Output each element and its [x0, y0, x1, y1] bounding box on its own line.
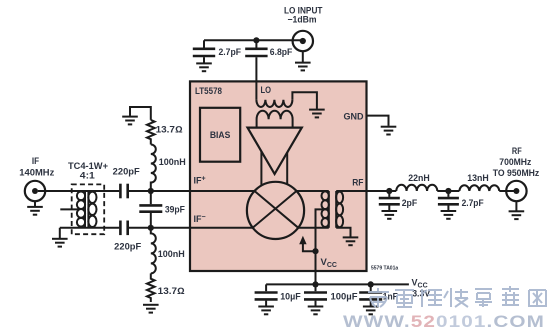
pin GND wire — [367, 116, 389, 126]
capacitor C2 6.8pF (LO series) — [255, 40, 257, 47]
resistor R1 13.7ohm (top) — [147, 120, 155, 145]
T1 tap stub — [60, 208, 79, 210]
node 1nF junction — [368, 281, 374, 287]
wire T1 primary bottom to ground — [59, 228, 61, 238]
ground of T3 secondary — [343, 237, 359, 245]
node Vcc rail junction — [312, 281, 318, 287]
ground under LO connector — [295, 63, 311, 71]
capacitor C4 220pF (IF- series) — [119, 221, 122, 236]
svg-text:2.7pF: 2.7pF — [219, 47, 242, 57]
svg-text:2pF: 2pF — [402, 198, 418, 208]
resistor R2 13.7ohm (bottom) — [147, 273, 155, 302]
svg-text:39pF: 39pF — [165, 204, 185, 214]
svg-text:220pF: 220pF — [113, 167, 141, 177]
capacitor C7 2.7pF — [447, 191, 449, 197]
wire Vcc rail — [266, 283, 409, 285]
ground under C1 — [196, 63, 212, 71]
T1 secondary winding — [88, 191, 96, 228]
wire IF- inside chip — [190, 227, 253, 229]
wire RF pin — [336, 190, 396, 192]
svg-text:13.7Ω: 13.7Ω — [156, 124, 183, 134]
wire LO top rail — [204, 39, 302, 41]
inductor L4 13nH — [459, 185, 499, 191]
node IF+ junction — [148, 188, 154, 194]
svg-text:RF: RF — [352, 177, 364, 187]
svg-text:WWW.520101.COM: WWW.520101.COM — [343, 313, 545, 331]
capacitor C9 100uF — [315, 284, 317, 291]
transformer T3 secondary — [336, 191, 343, 228]
ground under C9 — [308, 307, 324, 315]
ground under J1 — [27, 207, 43, 215]
capacitor C5 39pF (IF shunt) — [150, 191, 152, 204]
ground under C6 — [382, 211, 398, 219]
T3 center tap to Vcc — [316, 209, 329, 284]
svg-text:140MHz: 140MHz — [19, 167, 55, 177]
wire IF- rail (left of 220pF) — [60, 227, 120, 229]
svg-text:IF: IF — [32, 156, 40, 166]
transformer T2 LO balun primary — [256, 100, 292, 107]
transformer T1 TC4-1W+ dashed box — [72, 184, 105, 234]
svg-text:10µF: 10µF — [280, 292, 301, 302]
BIAS block — [200, 108, 240, 162]
wire LO pin into chip — [255, 57, 257, 100]
svg-text:4:1: 4:1 — [80, 171, 95, 181]
node RF junction 1 — [386, 188, 392, 194]
inductor L1 100nH (IF+) — [151, 145, 156, 192]
ground under J3 — [509, 211, 525, 219]
svg-text:700MHz: 700MHz — [499, 157, 531, 167]
inductor L2 100nH (IF-) — [151, 228, 156, 274]
connector J1 IF input — [25, 181, 45, 201]
T1 primary winding — [77, 191, 85, 228]
svg-text:100nH: 100nH — [159, 157, 186, 167]
svg-text:BIAS: BIAS — [210, 130, 231, 141]
node RF junction 2 — [445, 188, 451, 194]
ground of T2 primary — [309, 110, 325, 118]
ground of T1 — [52, 239, 68, 247]
svg-text:LT5578: LT5578 — [195, 86, 222, 97]
wire IF+ rail (left of 220pF) — [38, 190, 119, 192]
ground above R1 — [122, 117, 138, 125]
connector J2 LO INPUT — [293, 31, 313, 51]
transformer T3 RF primary (center-tapped) — [322, 191, 329, 228]
svg-text:2.7pF: 2.7pF — [462, 198, 484, 208]
capacitor C3 220pF (IF+ series) — [119, 184, 122, 199]
wire T3 secondary bottom to ground — [336, 228, 350, 237]
ground under C8 — [258, 307, 274, 315]
capacitor C6 2pF — [388, 191, 390, 197]
svg-text:13.7Ω: 13.7Ω — [158, 286, 185, 296]
ground under C10 — [363, 307, 379, 315]
watermark — [368, 286, 546, 307]
svg-text:LO: LO — [261, 85, 272, 95]
Vcc arrow — [303, 243, 316, 251]
wire amp to mixer left — [260, 151, 262, 186]
wire mixer to RF transformer top — [297, 190, 329, 192]
wire between L3 and L4 — [437, 190, 459, 192]
Vcc node inside chip — [312, 248, 318, 254]
wire R1 to ground — [130, 107, 151, 120]
svg-text:100nH: 100nH — [158, 249, 185, 259]
IC U1 LT5578 body — [190, 81, 367, 271]
wire amp to mixer right — [286, 152, 288, 185]
wire mixer to RF transformer bottom — [297, 227, 329, 229]
capacitor C1 2.7pF (LO shunt) — [203, 40, 205, 47]
capacitor C10 1nF — [370, 284, 372, 291]
wire IF+ inside chip — [190, 190, 255, 192]
ground under C7 — [441, 211, 457, 219]
svg-text:TC4-1W+: TC4-1W+ — [68, 161, 108, 171]
connector J3 RF output — [506, 181, 526, 201]
wire L4 to RF connector — [499, 190, 516, 192]
svg-text:VCC: VCC — [412, 277, 428, 289]
svg-text:TO 950MHz: TO 950MHz — [493, 168, 540, 178]
svg-text:13nH: 13nH — [467, 173, 489, 183]
capacitor C8 10uF — [265, 284, 267, 291]
svg-text:5579 TA01a: 5579 TA01a — [371, 266, 398, 272]
transformer T2 secondary — [257, 111, 293, 128]
svg-text:RF: RF — [512, 146, 522, 156]
ground under R2 — [143, 305, 159, 313]
svg-text:−1dBm: −1dBm — [288, 14, 317, 24]
mixer M1 — [247, 182, 304, 239]
op-amp buffer A1 (LO amplifier) — [248, 128, 302, 174]
node LO junction — [253, 37, 259, 43]
svg-text:6.8pF: 6.8pF — [270, 47, 293, 57]
inductor L3 22nH — [396, 185, 437, 191]
svg-text:22nH: 22nH — [408, 173, 430, 183]
wire IF+ rail (right of 220pF) — [129, 190, 190, 192]
node IF- junction — [148, 225, 154, 231]
svg-text:100µF: 100µF — [331, 292, 359, 302]
svg-text:GND: GND — [344, 111, 365, 121]
ground at GND pin — [381, 127, 397, 135]
svg-text:220pF: 220pF — [114, 241, 142, 251]
wire IF- rail (right of 220pF) — [129, 227, 190, 229]
